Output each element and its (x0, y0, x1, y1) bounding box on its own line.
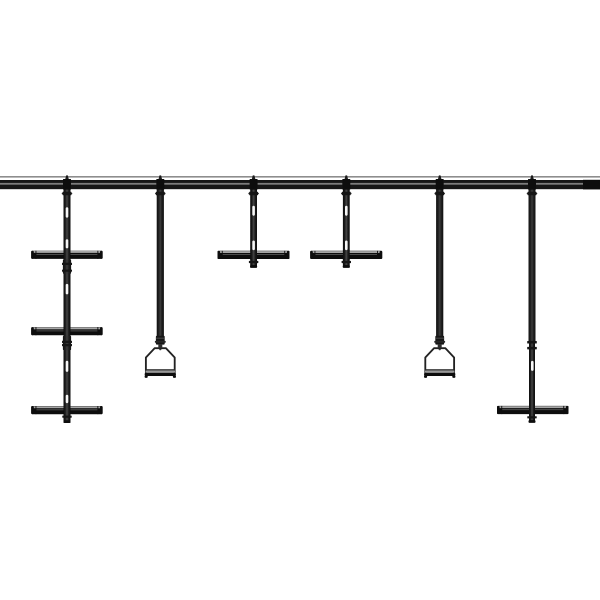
drop 6 tube passing over crossbar (529, 405, 535, 414)
drop 3 tube passing over crossbar (250, 250, 257, 259)
drop 1 coupler pins below crossbar A (62, 263, 72, 272)
drop 3 coupler pin (249, 261, 258, 263)
hanging bar: main tube (0, 180, 600, 189)
drop 2 handle: end sleeve (155, 336, 166, 350)
drop 6 bottom cap (529, 420, 536, 423)
drop 1 adjustment slots (66, 207, 69, 403)
drop 4 adjustment slots (345, 206, 348, 250)
drop 1 crossbar A (31, 251, 102, 259)
drop 3 adjustment slots (252, 206, 255, 250)
drop 1 crossbar B (31, 327, 102, 335)
bar clamp 4 (342, 175, 350, 189)
drop 2 handle: frame (146, 348, 175, 375)
drop 5 tube (handle hanger) (436, 188, 443, 341)
drop 6 lower tube (529, 341, 535, 421)
drop 6 upper tube (long T-bar) (529, 188, 536, 342)
collar with pins below clamp 5 (435, 192, 445, 195)
drop 4 tube (short T-bar) (343, 188, 350, 268)
drop 1 crossbar C (31, 406, 102, 414)
drop 6 crossbar (497, 406, 569, 414)
drop 1 tube (triple crossbar hanger) (64, 188, 71, 423)
drop 1 bottom cap (64, 420, 71, 423)
drop 4 coupler pin (342, 261, 351, 263)
collar with pins below clamp 2 (155, 192, 165, 195)
drop 4 crossbar (310, 251, 382, 259)
collar with pins below clamp 3 (248, 192, 258, 195)
collar with pins below clamp 1 (62, 192, 72, 195)
drop 3 crossbar (218, 251, 290, 259)
collar with pins below clamp 6 (527, 192, 537, 195)
bar clamp 2 (156, 175, 164, 189)
hanging bar: top edge highlight (0, 176, 600, 178)
drop 5 handle: end sleeve (434, 336, 445, 350)
bar clamp 5 (436, 175, 444, 189)
drop 6 coupler rings (527, 341, 537, 349)
collar with pins below clamp 4 (341, 192, 351, 195)
bar clamp 3 (250, 175, 258, 189)
hanging bar: right end cap (583, 180, 600, 190)
drop 2 tube (handle hanger) (157, 188, 164, 341)
drop 2 handle: grip bar (145, 369, 176, 378)
drop 1 coupler pins below crossbar B (62, 341, 72, 346)
drop 1 coupler sleeves (63, 259, 71, 350)
bar clamp 6 (528, 175, 536, 189)
drop 4 bottom cap (343, 265, 350, 268)
drop 3 bottom cap (250, 265, 257, 268)
drop 6 adjustment slot (531, 361, 534, 371)
drop 6 coupler pin (527, 416, 536, 418)
bar clamp 1 (63, 175, 71, 189)
drop 3 tube (short T-bar) (250, 188, 257, 268)
drop 4 tube passing over crossbar (343, 250, 350, 259)
drop 1 coupler pins below crossbar C (62, 416, 71, 418)
hanging bar: specular stripe (0, 183, 600, 185)
drop 5 handle: frame (425, 348, 454, 375)
drop 1 tube passing over crossbars (64, 250, 71, 415)
drop 5 handle: grip bar (424, 369, 455, 378)
